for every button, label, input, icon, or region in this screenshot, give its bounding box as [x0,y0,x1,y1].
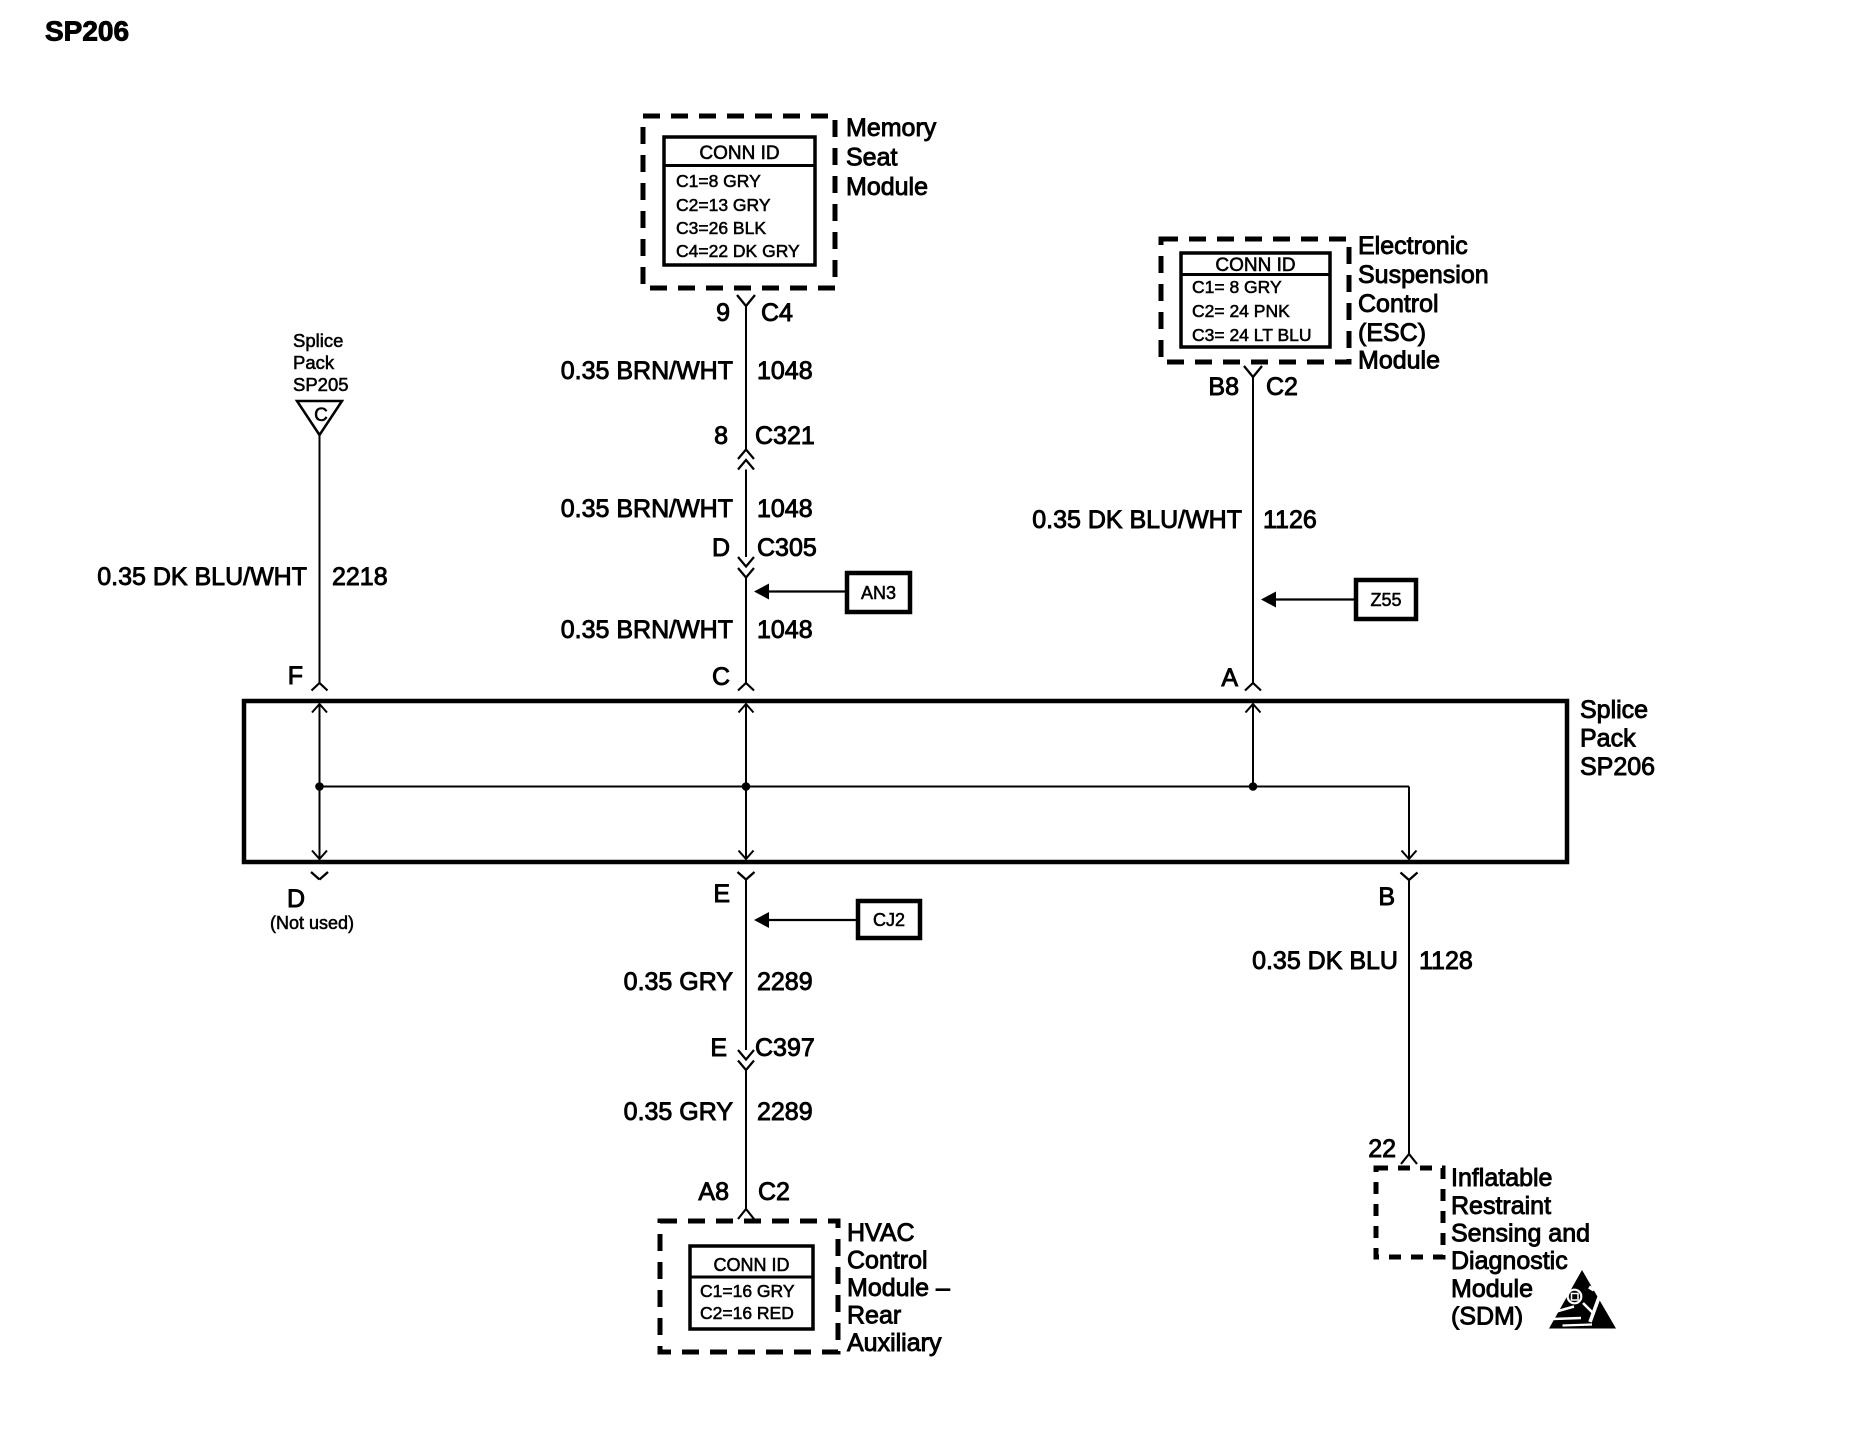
svg-text:HVAC: HVAC [847,1219,915,1247]
svg-text:0.35 BRN/WHT: 0.35 BRN/WHT [561,495,733,523]
module box: Memory Seat Module (dashed) [643,116,835,288]
svg-text:C4: C4 [761,299,793,327]
svg-text:C2=16 RED: C2=16 RED [700,1303,794,1323]
svg-text:2289: 2289 [757,968,813,996]
svg-text:C2: C2 [758,1178,790,1206]
svg-text:Module: Module [1358,347,1440,375]
svg-text:C2: C2 [1266,373,1298,401]
svg-text:Z55: Z55 [1370,590,1401,610]
terminal D connector chevron (not used) [311,872,328,880]
svg-text:C1=16 GRY: C1=16 GRY [700,1281,795,1301]
svg-text:Control: Control [847,1247,928,1275]
node A internal riser [1252,704,1254,787]
connector chevron above HVAC module [738,1209,754,1219]
svg-text:SP205: SP205 [293,374,349,395]
svg-text:C3=26 BLK: C3=26 BLK [676,218,766,238]
SIR airbag warning triangle icon [1549,1270,1616,1329]
CONN ID table (Memory Seat Module) [664,137,815,265]
svg-text:E: E [710,1034,727,1062]
terminal A connector chevron [1245,683,1261,691]
svg-text:1048: 1048 [757,616,813,644]
svg-text:C1= 8 GRY: C1= 8 GRY [1192,277,1282,297]
svg-text:0.35 BRN/WHT: 0.35 BRN/WHT [561,616,733,644]
svg-text:(ESC): (ESC) [1358,319,1426,347]
wire 1048 segment (C4 to C321) [745,306,747,450]
wire 2289 segment (splice pack to C397) [745,880,747,1051]
svg-text:C3= 24 LT BLU: C3= 24 LT BLU [1192,325,1312,345]
svg-text:Diagnostic: Diagnostic [1451,1247,1568,1275]
callout AN3 (harness code) with arrow to wire [847,573,910,612]
svg-text:D: D [712,534,730,562]
junction dot C [742,782,751,791]
svg-text:2289: 2289 [757,1098,813,1126]
svg-text:CONN ID: CONN ID [699,143,779,164]
svg-text:CONN ID: CONN ID [1215,255,1295,276]
svg-text:C305: C305 [757,534,817,562]
svg-text:C: C [314,405,328,426]
module box: Inflatable Restraint Sensing and Diagnostic Module (SDM) (dashed) [1376,1168,1443,1257]
svg-text:Module –: Module – [847,1274,950,1302]
svg-text:C2= 24 PNK: C2= 24 PNK [1192,301,1290,321]
node C internal riser [745,704,747,859]
svg-text:Splice: Splice [1580,696,1648,724]
terminal C connector chevron [738,683,754,691]
svg-text:Suspension: Suspension [1358,261,1489,289]
svg-text:0.35 DK BLU/WHT: 0.35 DK BLU/WHT [1032,506,1242,534]
svg-text:A8: A8 [698,1178,729,1206]
svg-text:Module: Module [1451,1275,1533,1303]
svg-text:Electronic: Electronic [1358,232,1468,260]
wire 1048 segment (C305 to splice pack) [745,578,747,684]
wire 2218 (SP205 to splice pack) [319,435,321,683]
svg-text:Splice: Splice [293,330,343,351]
svg-text:0.35 DK BLU: 0.35 DK BLU [1252,947,1398,975]
svg-text:1048: 1048 [757,357,813,385]
svg-text:1048: 1048 [757,495,813,523]
inline connector C397 pin E (double chevron) [738,1050,754,1060]
svg-text:SP206: SP206 [45,16,129,47]
svg-text:(Not used): (Not used) [270,913,354,933]
svg-text:C2=13 GRY: C2=13 GRY [676,195,771,215]
callout Z55 (harness code) with arrow to wire [1356,580,1416,619]
svg-text:F: F [288,662,303,690]
svg-text:C: C [712,663,730,691]
svg-text:0.35 GRY: 0.35 GRY [624,1098,734,1126]
svg-text:E: E [713,880,730,908]
svg-text:C4=22 DK GRY: C4=22 DK GRY [676,241,800,261]
terminal F connector chevron [312,683,328,691]
svg-text:C1=8 GRY: C1=8 GRY [676,171,761,191]
terminal B connector chevron [1401,873,1418,881]
inline connector C321 pin 8 (double chevron) [738,450,754,460]
splice pack SP205 triangle symbol C [297,401,342,435]
CONN ID table (ESC Module) [1181,253,1330,347]
svg-text:Module: Module [846,173,928,201]
svg-text:0.35 GRY: 0.35 GRY [624,968,734,996]
junction dot A [1249,782,1258,791]
junction dot F [315,782,324,791]
svg-text:CONN ID: CONN ID [714,1255,790,1275]
svg-text:0.35 DK BLU/WHT: 0.35 DK BLU/WHT [97,563,307,591]
svg-text:2218: 2218 [332,563,388,591]
splice pack SP206 box [244,701,1567,862]
node F internal riser [319,704,321,859]
wire 1048 segment (C321 to C305) [745,470,747,558]
svg-text:1126: 1126 [1263,506,1317,534]
inline connector C305 pin D (double chevron) [738,557,754,567]
svg-text:AN3: AN3 [861,583,896,603]
node B internal drop arrow [1402,851,1417,860]
svg-text:1128: 1128 [1419,947,1473,975]
svg-text:0.35 BRN/WHT: 0.35 BRN/WHT [561,357,733,385]
wire 1128 (splice pack to SDM) [1408,880,1410,1154]
svg-text:Seat: Seat [846,144,897,172]
svg-text:CJ2: CJ2 [873,910,905,930]
module box: Electronic Suspension Control (ESC) Module (dashed) [1161,239,1349,362]
svg-text:Pack: Pack [1580,725,1636,753]
svg-text:Memory: Memory [846,114,937,142]
svg-text:Pack: Pack [293,352,335,373]
connector symbol below Memory Seat Module (C4) [737,295,755,306]
svg-text:8: 8 [714,422,728,450]
svg-text:C397: C397 [755,1034,815,1062]
svg-text:Auxiliary: Auxiliary [847,1329,942,1357]
svg-text:A: A [1221,664,1238,692]
svg-text:(SDM): (SDM) [1451,1303,1523,1331]
svg-text:SP206: SP206 [1580,753,1655,781]
svg-text:C321: C321 [755,422,815,450]
svg-text:Control: Control [1358,290,1439,318]
wire 2289 segment (C397 to HVAC module) [745,1070,747,1209]
wire 1126 (ESC to splice pack) [1252,377,1254,683]
svg-text:22: 22 [1368,1135,1396,1163]
callout CJ2 (harness code) with arrow to wire [858,901,920,938]
svg-text:Restraint: Restraint [1451,1192,1551,1220]
connector chevron above SDM [1401,1154,1417,1164]
svg-text:9: 9 [716,299,730,327]
svg-text:Inflatable: Inflatable [1451,1164,1552,1192]
svg-text:Sensing and: Sensing and [1451,1220,1590,1248]
CONN ID table (HVAC module) [690,1246,813,1329]
svg-text:Rear: Rear [847,1302,901,1330]
svg-text:D: D [287,885,305,913]
svg-text:B8: B8 [1208,373,1239,401]
module box: HVAC Control Module - Rear Auxiliary (dashed) [660,1221,838,1352]
connector symbol below ESC module (C2) [1244,366,1262,377]
svg-text:B: B [1378,883,1395,911]
splice pack internal bus wire [320,786,1410,788]
terminal E connector chevron [738,872,755,880]
